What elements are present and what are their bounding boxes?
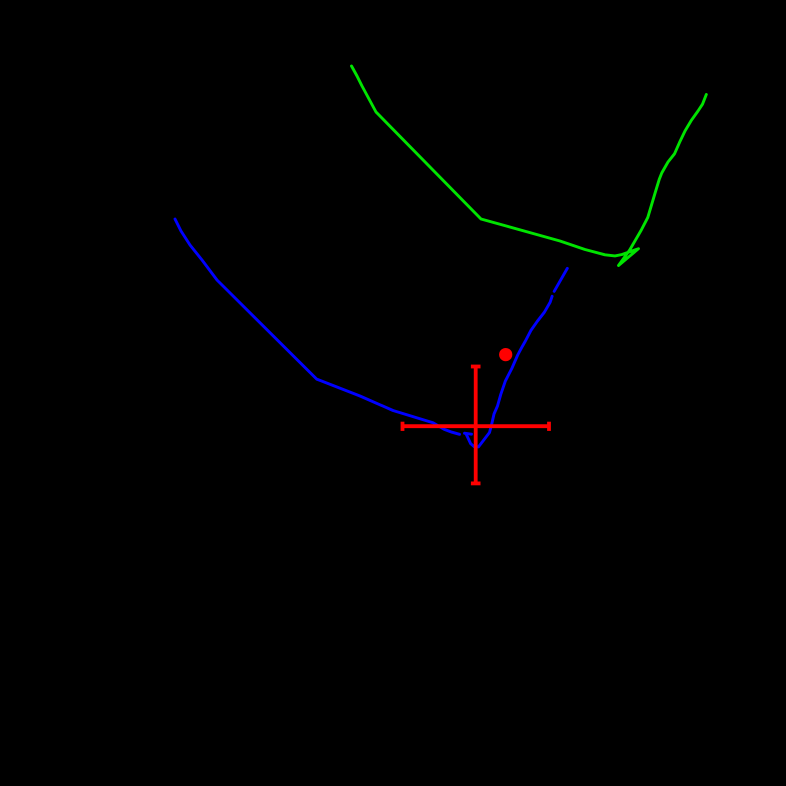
red error bar vertical bottom cap <box>471 481 481 485</box>
blue curve cusp loop and steep rise <box>466 296 552 447</box>
red error bar horizontal <box>403 424 550 428</box>
green curve (upper trace with loop-back kink) <box>352 66 707 266</box>
red error bar horizontal left cap <box>401 422 405 431</box>
red error bar vertical <box>474 367 478 484</box>
red error bar vertical top cap <box>471 365 481 369</box>
blue curve top dash segment <box>554 268 567 291</box>
blue curve (solid main branch descending to cusp then rising) <box>175 219 460 434</box>
blue curve short dash near minimum <box>465 433 472 434</box>
red error bar horizontal right cap <box>547 422 551 431</box>
red marker dot <box>499 348 512 361</box>
